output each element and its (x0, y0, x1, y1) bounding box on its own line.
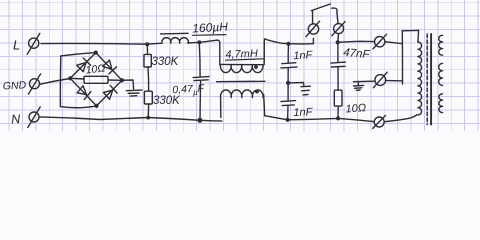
capacitor C3 47nF (331, 44, 346, 90)
terminal N input (28, 107, 40, 127)
diode D3 (bridge lower-left) (77, 85, 91, 99)
junction L/1nF (286, 42, 290, 46)
junction N/1nF (286, 118, 290, 122)
junction N/0.47uF (197, 118, 202, 123)
transformer T1 secondary winding 2 (439, 63, 443, 85)
choke L1 core line (217, 80, 265, 82)
terminal GND input (28, 74, 40, 94)
transformer T1 secondary winding 3 (439, 94, 443, 113)
junction C1/C2/ground (286, 81, 290, 85)
wire N line (terminal to choke) (40, 117, 222, 121)
svg-text:330K: 330K (152, 56, 180, 68)
wire R1 to R2 (147, 67, 150, 91)
ground (earth line) (354, 82, 364, 91)
resistor R1 330K (144, 44, 151, 67)
capacitor C2 1nF (281, 83, 296, 120)
junction switch/47nF (336, 40, 340, 44)
node bridge top (94, 51, 98, 55)
node bridge right (120, 78, 124, 82)
switch S1 (306, 4, 345, 44)
resistor R3 10ohm (334, 90, 342, 118)
svg-text:160µH: 160µH (192, 20, 229, 36)
choke L1 4.7mH top winding (217, 39, 265, 73)
diode D4 (bridge lower-right) (103, 85, 117, 99)
resistor R2 330K (144, 91, 152, 117)
svg-text:1nF: 1nF (293, 106, 314, 119)
junction N/10ohm (336, 116, 340, 120)
terminal (earth line) (373, 72, 387, 88)
node bridge left (68, 76, 72, 80)
wire L line (switch to transformer) (338, 41, 403, 43)
bridge rectifier diamond (70, 53, 122, 106)
svg-text:330K: 330K (153, 95, 181, 107)
terminal (L line, before transformer) (373, 34, 387, 49)
transformer T1 secondary winding 1 (439, 35, 443, 55)
svg-text:GND: GND (3, 79, 27, 92)
wire N line (choke to transformer) (265, 116, 374, 122)
ground (Y-cap midpoint) (288, 83, 310, 95)
terminal (N line, before transformer) (373, 116, 386, 129)
svg-text:10Ω: 10Ω (85, 62, 106, 76)
terminal L input (27, 33, 40, 54)
transformer T1 primary rail (402, 30, 418, 84)
transformer T1 core (427, 34, 431, 125)
svg-text:1nF: 1nF (293, 49, 314, 62)
choke L1 bottom winding (221, 90, 265, 118)
capacitor CX 0.47uF (193, 42, 209, 120)
node bridge bottom (94, 104, 98, 108)
diode D1 (bridge upper-left) (76, 58, 90, 72)
svg-text:47nF: 47nF (343, 47, 371, 61)
bridge rectifier outer bracket (60, 53, 96, 108)
resistor 10ohm (bridge centre) with wires (70, 76, 122, 83)
wire L line (choke to switch) (265, 39, 314, 44)
wire GND to bridge (40, 79, 70, 85)
diode D2 (bridge upper-right) (102, 60, 116, 74)
svg-text:10Ω: 10Ω (345, 102, 366, 115)
ground (bridge output) (122, 80, 142, 96)
junction L/0.47uF (197, 40, 201, 44)
junction L/330K (145, 42, 149, 46)
svg-text:L: L (13, 38, 20, 53)
junction N/330K (146, 116, 150, 120)
wire L line (terminal to choke) (41, 40, 217, 44)
capacitor C1 1nF (281, 44, 297, 83)
transformer T1 primary winding (418, 42, 422, 115)
wire earth line to transformer (354, 81, 403, 82)
inductor 160uH (161, 33, 189, 43)
